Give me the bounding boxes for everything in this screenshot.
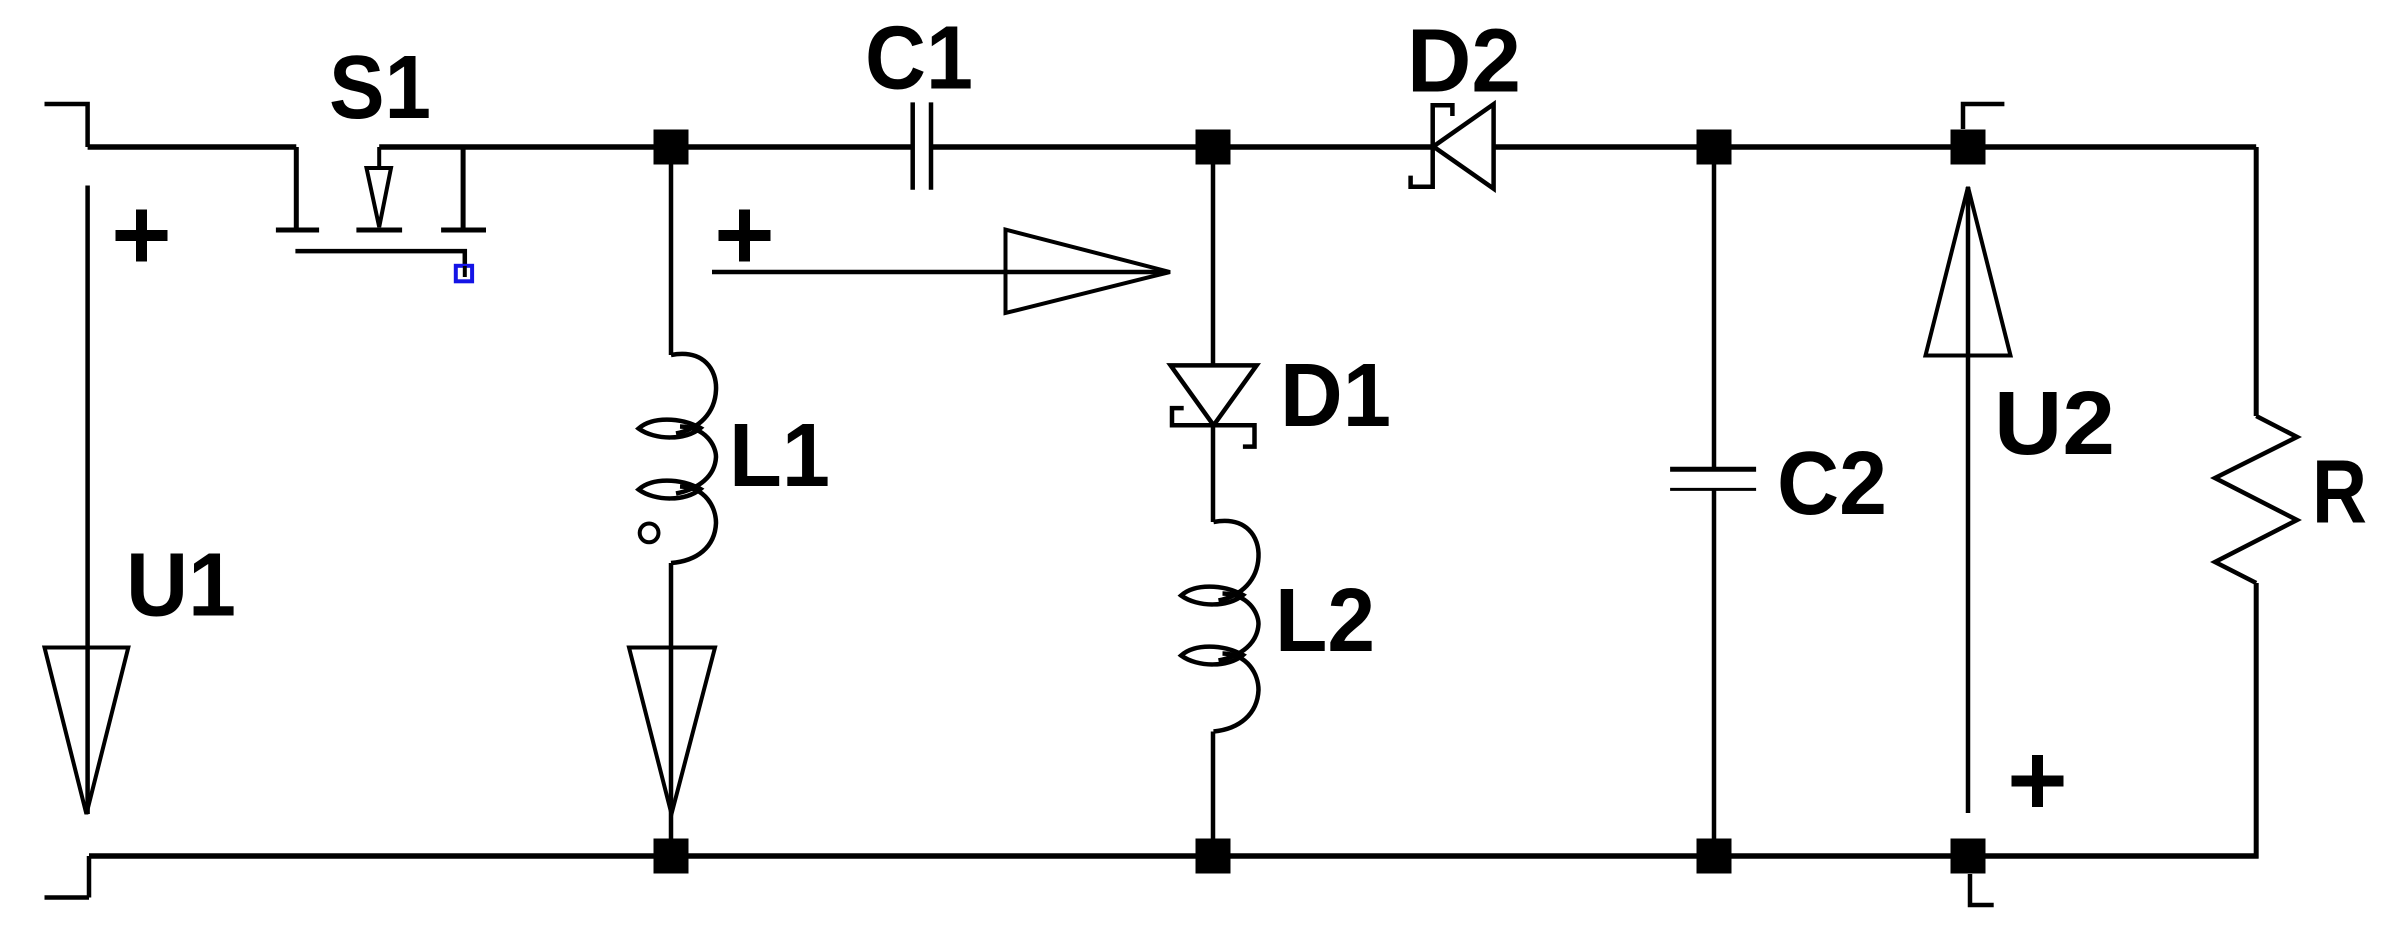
label L2 xyxy=(1275,571,1375,671)
label D2 xyxy=(1407,12,1521,112)
svg-text:U2: U2 xyxy=(1994,374,2115,474)
inductor L2 crossover leaf 1 xyxy=(1181,587,1243,605)
diode D1 triangle (pointing down) xyxy=(1171,365,1257,425)
label L1 xyxy=(729,406,830,506)
transistor S1 body-diode arrow xyxy=(367,168,392,227)
svg-text:C1: C1 xyxy=(865,9,973,109)
node H junction square (bottom of U2) xyxy=(1951,839,1986,874)
wire: L1 bottom to node E (through current arrow) xyxy=(669,563,674,839)
inductor L2 crossover leaf 2 xyxy=(1181,647,1243,665)
inductor L1 crossover leaf 1 xyxy=(639,420,701,438)
inductor L1 coil arc 3 xyxy=(671,487,716,564)
voltage arrow U2 shaft (vertical, pointing up) xyxy=(1966,187,1971,813)
inductor L1 crossover leaf 2 xyxy=(639,481,701,499)
wire: D1 cathode down to L2 xyxy=(1211,425,1216,522)
current arrow head (open triangle right) xyxy=(1006,230,1171,313)
terminal bracket below node H (U2 - terminal) xyxy=(1970,874,1994,905)
wire: top-right corner down to resistor R xyxy=(2254,147,2259,416)
voltage arrow U1 shaft (vertical, pointing down) xyxy=(85,186,90,815)
inductor L1 coil arc 2 xyxy=(676,427,716,494)
transistor Q1 (switch S1) drain lead xyxy=(294,147,299,228)
wire: node C down to C2 top plate xyxy=(1712,164,1717,467)
label S1 xyxy=(329,38,431,138)
resistor R zigzag xyxy=(2215,416,2297,583)
plus sign of U1 (top) xyxy=(116,210,168,262)
inductor L1 winding-start circle xyxy=(640,524,659,543)
inductor L2 coil arc 2 xyxy=(1219,594,1259,661)
inductor L2 coil arc 3 xyxy=(1214,654,1259,732)
node G junction square (bottom of C2) xyxy=(1697,839,1732,874)
current arrow shaft (horizontal) xyxy=(712,270,1165,275)
label D1 xyxy=(1280,346,1391,446)
wire: node B down to D1 xyxy=(1211,164,1216,366)
transistor S1 gate lead tick inside pad xyxy=(463,266,467,277)
capacitor C1 left plate xyxy=(910,102,915,189)
inductor L1 coil arc 1 xyxy=(671,354,716,434)
wire: node B to D2 cathode xyxy=(1230,144,1433,150)
voltage arrow U1 head (open triangle down) xyxy=(45,648,129,815)
wire: S1 source to C1 left plate (through node A) xyxy=(379,144,910,150)
label C2 xyxy=(1777,434,1887,534)
transistor S1 body-diode arrow stub xyxy=(377,147,381,166)
transistor S1 source contact bar xyxy=(441,228,486,233)
svg-text:D2: D2 xyxy=(1407,12,1521,112)
label U2 xyxy=(1994,374,2115,474)
terminal bracket above node D (U2 + terminal) xyxy=(1963,104,2004,129)
capacitor C2 top plate xyxy=(1670,467,1756,472)
terminal bracket bottom-left (U1 - terminal) xyxy=(45,856,90,898)
node E junction square (bottom of L1) xyxy=(654,839,689,874)
transistor S1 source lead xyxy=(461,147,466,228)
label C1 xyxy=(865,9,973,109)
node C junction square (top of C2) xyxy=(1697,130,1732,165)
wire: C1 right plate to node B xyxy=(933,144,1213,150)
wire: U1 top terminal to S1 drain xyxy=(88,144,297,150)
svg-text:S1: S1 xyxy=(329,38,431,138)
bottom rail wire xyxy=(89,853,2259,859)
wire: L2 bottom to node F xyxy=(1211,732,1216,840)
wire: node A down to L1 xyxy=(669,164,674,355)
svg-text:L2: L2 xyxy=(1275,571,1375,671)
transistor S1 body contact bar xyxy=(356,228,402,233)
svg-text:U1: U1 xyxy=(126,536,236,636)
node F junction square (bottom of L2) xyxy=(1196,839,1231,874)
diode D2 triangle (pointing left) xyxy=(1433,104,1493,189)
label U1 xyxy=(126,536,236,636)
svg-text:C2: C2 xyxy=(1777,434,1887,534)
voltage arrow U2 head (open triangle up) xyxy=(1926,187,2011,356)
plus sign of current arrow xyxy=(719,210,771,262)
node D junction square (top of U2) xyxy=(1951,130,1986,165)
current arrow of L1 branch (open triangle down) xyxy=(629,648,715,815)
transistor S1 gate line xyxy=(295,251,464,264)
svg-text:D1: D1 xyxy=(1280,346,1391,446)
transistor S1 gate terminal pad (blue) xyxy=(456,266,472,282)
node A junction square (top of L1) xyxy=(654,130,689,165)
wire: C2 bottom plate to node G xyxy=(1712,490,1717,839)
capacitor C2 bottom plate xyxy=(1670,488,1756,491)
capacitor C1 right plate xyxy=(929,102,934,189)
transistor S1 drain contact bar xyxy=(276,228,319,233)
plus sign of U2 (bottom) xyxy=(2012,755,2064,807)
svg-text:R: R xyxy=(2312,443,2367,543)
label R xyxy=(2312,443,2367,543)
inductor L2 coil arc 1 xyxy=(1214,521,1259,601)
diode D2 schottky cathode bar xyxy=(1411,105,1453,187)
diode D1 schottky cathode bar xyxy=(1172,408,1255,447)
svg-text:L1: L1 xyxy=(729,406,830,506)
wire: D2 anode to top-right corner (through nodes C and D) xyxy=(1494,144,2257,150)
terminal bracket top-left (U1 + terminal) xyxy=(45,104,88,147)
wire: resistor R bottom to bottom rail xyxy=(2254,583,2259,859)
node B junction square (top of D1) xyxy=(1196,130,1231,165)
